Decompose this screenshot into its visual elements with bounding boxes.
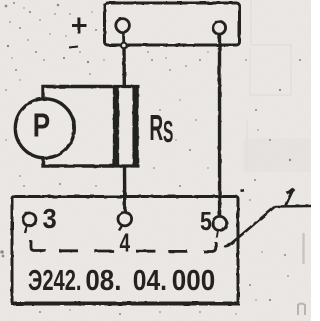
wire: P-loop left edge upper stub [41,85,44,100]
terminal 5 [213,216,227,230]
resistor RS body [113,85,140,167]
dashed outline dashes [59,249,188,252]
terminal 4 [118,212,132,226]
stray blob near box corner [241,189,245,192]
wire: resistor to terminal 4 [123,168,127,213]
dashed outline end hook [204,242,216,252]
faint scan band [243,138,311,172]
wire: P-loop bottom edge [42,164,115,167]
wire: left terminal to resistor [122,47,126,86]
faint smudges right side [302,233,304,264]
relay unit box (bottom) [12,197,238,304]
wire: P-loop top edge [42,85,115,88]
junction dot at box edge [121,43,127,49]
wire: P-loop left edge lower stub [41,157,44,168]
terminal right [213,21,226,34]
dashed outline start hook [31,241,46,251]
leader line 1 [224,206,311,246]
numeral 1 of leader [286,189,294,206]
stray pen mark [69,47,78,48]
terminal left (+) [116,19,130,33]
wire: left terminal stem [122,32,125,43]
plus sign [72,18,87,34]
terminal 3 [23,213,36,226]
wire: right terminal down to terminal 5 [218,34,222,216]
gauge P [15,99,74,158]
faint bleed-through marks [247,0,291,170]
connector block (top terminal box) [105,3,240,45]
